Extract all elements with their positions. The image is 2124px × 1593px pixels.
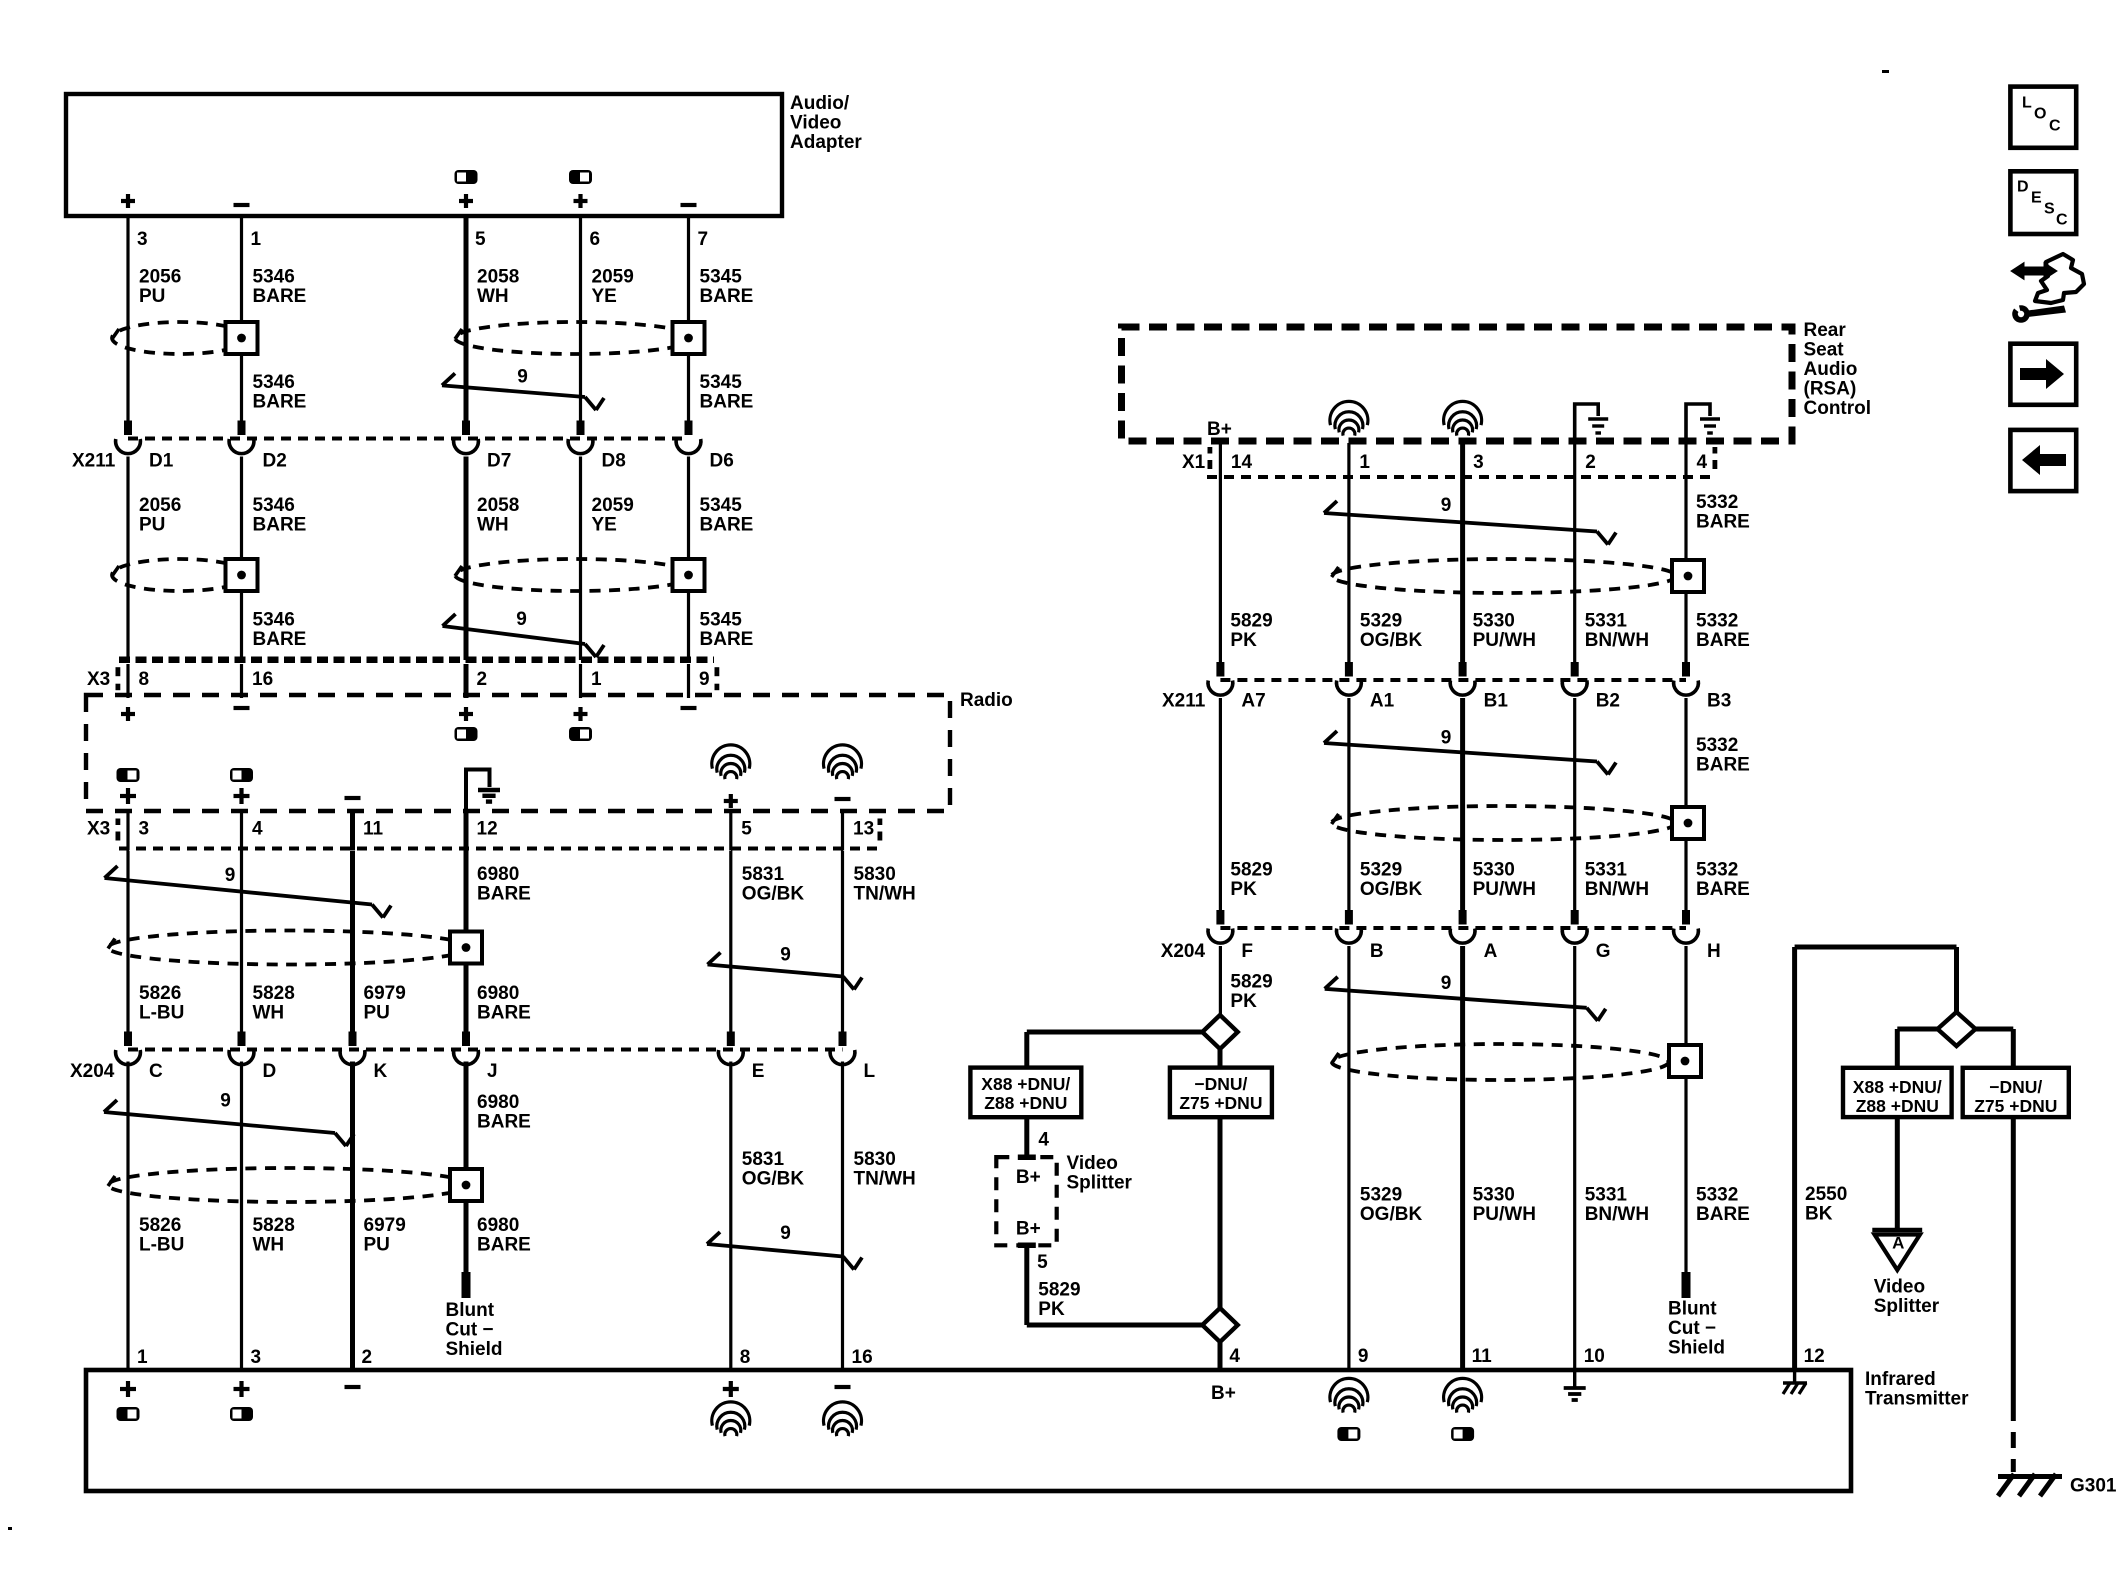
svg-text:BARE: BARE bbox=[477, 1111, 531, 1132]
svg-text:X211: X211 bbox=[1162, 691, 1206, 712]
svg-text:2059: 2059 bbox=[592, 495, 634, 516]
svg-text:Video: Video bbox=[1067, 1153, 1118, 1174]
svg-text:E: E bbox=[752, 1061, 765, 1082]
svg-text:9: 9 bbox=[699, 669, 710, 690]
svg-text:B+: B+ bbox=[1016, 1219, 1041, 1240]
svg-text:5330: 5330 bbox=[1473, 611, 1515, 632]
svg-text:3: 3 bbox=[139, 818, 150, 839]
svg-text:9: 9 bbox=[517, 366, 528, 387]
svg-text:B: B bbox=[1370, 941, 1384, 962]
svg-text:5346: 5346 bbox=[253, 610, 295, 631]
svg-text:8: 8 bbox=[740, 1347, 751, 1368]
svg-text:5331: 5331 bbox=[1585, 859, 1628, 880]
svg-text:9: 9 bbox=[1441, 495, 1452, 516]
svg-text:1: 1 bbox=[137, 1347, 148, 1368]
svg-text:BARE: BARE bbox=[700, 514, 754, 535]
svg-text:−DNU/: −DNU/ bbox=[1194, 1074, 1247, 1094]
svg-text:BN/WH: BN/WH bbox=[1585, 1204, 1649, 1225]
svg-text:14: 14 bbox=[1231, 452, 1253, 473]
svg-text:L-BU: L-BU bbox=[139, 1234, 184, 1255]
svg-text:2056: 2056 bbox=[139, 266, 181, 287]
svg-text:BN/WH: BN/WH bbox=[1585, 630, 1649, 651]
svg-text:5345: 5345 bbox=[700, 372, 743, 393]
svg-text:5345: 5345 bbox=[700, 266, 743, 287]
svg-text:Rear: Rear bbox=[1804, 320, 1847, 341]
svg-text:5346: 5346 bbox=[253, 372, 295, 393]
svg-text:PU: PU bbox=[139, 514, 165, 535]
svg-text:3: 3 bbox=[137, 229, 148, 250]
svg-text:Z88 +DNU: Z88 +DNU bbox=[1856, 1096, 1939, 1116]
svg-text:9: 9 bbox=[780, 944, 791, 965]
svg-text:2056: 2056 bbox=[139, 495, 181, 516]
svg-text:A7: A7 bbox=[1241, 691, 1265, 712]
svg-text:BARE: BARE bbox=[1696, 630, 1750, 651]
svg-text:OG/BK: OG/BK bbox=[1360, 630, 1423, 651]
svg-text:−DNU/: −DNU/ bbox=[1989, 1077, 2042, 1097]
svg-text:PK: PK bbox=[1038, 1299, 1065, 1320]
svg-text:9: 9 bbox=[1358, 1346, 1369, 1367]
svg-text:5: 5 bbox=[1037, 1252, 1048, 1273]
svg-text:6980: 6980 bbox=[477, 1092, 519, 1113]
svg-text:BK: BK bbox=[1805, 1203, 1833, 1224]
svg-text:1: 1 bbox=[251, 229, 262, 250]
svg-text:PU: PU bbox=[364, 1234, 390, 1255]
svg-text:(RSA): (RSA) bbox=[1804, 378, 1857, 399]
svg-text:9: 9 bbox=[225, 865, 236, 886]
svg-text:5: 5 bbox=[475, 229, 486, 250]
svg-text:OG/BK: OG/BK bbox=[1360, 1204, 1423, 1225]
svg-text:Z75 +DNU: Z75 +DNU bbox=[1974, 1096, 2057, 1116]
svg-text:H: H bbox=[1707, 941, 1721, 962]
svg-text:Splitter: Splitter bbox=[1874, 1296, 1940, 1317]
svg-text:5332: 5332 bbox=[1696, 492, 1738, 513]
svg-text:4: 4 bbox=[1038, 1129, 1049, 1150]
svg-text:PU: PU bbox=[139, 286, 165, 307]
svg-text:13: 13 bbox=[853, 818, 874, 839]
svg-text:YE: YE bbox=[592, 286, 617, 307]
svg-text:2059: 2059 bbox=[592, 266, 634, 287]
svg-text:BARE: BARE bbox=[1696, 754, 1750, 775]
svg-text:5332: 5332 bbox=[1696, 735, 1738, 756]
svg-text:Cut −: Cut − bbox=[1668, 1318, 1716, 1339]
svg-text:Control: Control bbox=[1804, 398, 1872, 419]
svg-text:X88 +DNU/: X88 +DNU/ bbox=[981, 1074, 1070, 1094]
svg-text:5330: 5330 bbox=[1473, 1184, 1515, 1205]
svg-text:2: 2 bbox=[1585, 452, 1596, 473]
svg-text:BARE: BARE bbox=[253, 514, 307, 535]
svg-text:B+: B+ bbox=[1016, 1167, 1041, 1188]
svg-text:5346: 5346 bbox=[253, 495, 295, 516]
svg-text:TN/WH: TN/WH bbox=[854, 883, 916, 904]
svg-text:B+: B+ bbox=[1211, 1383, 1236, 1404]
svg-text:D2: D2 bbox=[263, 450, 287, 471]
svg-text:Z75 +DNU: Z75 +DNU bbox=[1179, 1093, 1262, 1113]
svg-text:PU/WH: PU/WH bbox=[1473, 630, 1536, 651]
svg-text:Video: Video bbox=[790, 112, 841, 133]
svg-text:BARE: BARE bbox=[700, 286, 754, 307]
svg-text:6980: 6980 bbox=[477, 983, 519, 1004]
svg-text:BARE: BARE bbox=[700, 391, 754, 412]
svg-text:L: L bbox=[2022, 95, 2032, 112]
svg-text:PK: PK bbox=[1230, 991, 1257, 1012]
svg-text:D8: D8 bbox=[602, 450, 626, 471]
svg-text:B+: B+ bbox=[1207, 419, 1232, 440]
svg-text:D: D bbox=[263, 1061, 277, 1082]
svg-text:9: 9 bbox=[516, 609, 527, 630]
svg-text:5829: 5829 bbox=[1230, 971, 1272, 992]
svg-text:4: 4 bbox=[252, 818, 263, 839]
svg-text:C: C bbox=[149, 1061, 163, 1082]
svg-text:9: 9 bbox=[220, 1091, 231, 1112]
svg-text:3: 3 bbox=[1473, 452, 1484, 473]
svg-text:G: G bbox=[1596, 941, 1611, 962]
svg-text:X1: X1 bbox=[1182, 452, 1206, 473]
svg-text:WH: WH bbox=[253, 1002, 285, 1023]
svg-text:12: 12 bbox=[1804, 1346, 1825, 1367]
svg-text:D7: D7 bbox=[487, 450, 511, 471]
svg-text:J: J bbox=[487, 1061, 498, 1082]
svg-text:Radio: Radio bbox=[960, 690, 1013, 711]
svg-text:Shield: Shield bbox=[1668, 1337, 1725, 1358]
svg-text:Seat: Seat bbox=[1804, 339, 1845, 360]
svg-text:16: 16 bbox=[252, 669, 273, 690]
svg-text:4: 4 bbox=[1229, 1346, 1240, 1367]
svg-text:10: 10 bbox=[1584, 1346, 1605, 1367]
svg-text:16: 16 bbox=[852, 1347, 873, 1368]
svg-text:PU/WH: PU/WH bbox=[1473, 1204, 1536, 1225]
svg-text:Audio/: Audio/ bbox=[790, 93, 850, 114]
svg-text:PK: PK bbox=[1230, 630, 1257, 651]
svg-text:OG/BK: OG/BK bbox=[1360, 879, 1423, 900]
svg-text:5332: 5332 bbox=[1696, 1184, 1738, 1205]
svg-text:Adapter: Adapter bbox=[790, 132, 862, 153]
svg-text:BARE: BARE bbox=[700, 629, 754, 650]
svg-text:5826: 5826 bbox=[139, 1215, 181, 1236]
svg-text:D6: D6 bbox=[710, 450, 734, 471]
svg-text:9: 9 bbox=[1441, 973, 1452, 994]
svg-text:5332: 5332 bbox=[1696, 611, 1738, 632]
svg-text:C: C bbox=[2049, 118, 2061, 135]
svg-text:WH: WH bbox=[253, 1234, 285, 1255]
svg-text:L: L bbox=[864, 1061, 876, 1082]
svg-text:1: 1 bbox=[1359, 452, 1370, 473]
svg-text:11: 11 bbox=[363, 818, 384, 839]
svg-text:1: 1 bbox=[591, 669, 602, 690]
svg-text:BARE: BARE bbox=[253, 391, 307, 412]
svg-text:D: D bbox=[2017, 179, 2029, 196]
svg-text:Infrared: Infrared bbox=[1865, 1369, 1936, 1390]
svg-text:5330: 5330 bbox=[1473, 859, 1515, 880]
svg-text:C: C bbox=[2056, 212, 2068, 229]
svg-text:K: K bbox=[374, 1061, 388, 1082]
svg-text:6980: 6980 bbox=[477, 864, 519, 885]
svg-text:7: 7 bbox=[698, 229, 709, 250]
svg-text:E: E bbox=[2031, 190, 2042, 207]
svg-text:BARE: BARE bbox=[477, 1002, 531, 1023]
svg-text:B2: B2 bbox=[1596, 691, 1620, 712]
svg-text:BARE: BARE bbox=[477, 1234, 531, 1255]
svg-text:9: 9 bbox=[780, 1223, 791, 1244]
svg-text:5828: 5828 bbox=[253, 983, 295, 1004]
svg-text:BARE: BARE bbox=[253, 286, 307, 307]
svg-text:BARE: BARE bbox=[1696, 879, 1750, 900]
svg-text:5830: 5830 bbox=[854, 864, 896, 885]
svg-text:YE: YE bbox=[592, 514, 617, 535]
svg-text:Z88 +DNU: Z88 +DNU bbox=[984, 1093, 1067, 1113]
svg-text:5829: 5829 bbox=[1230, 859, 1272, 880]
svg-text:BN/WH: BN/WH bbox=[1585, 879, 1649, 900]
svg-text:OG/BK: OG/BK bbox=[742, 883, 805, 904]
svg-text:2550: 2550 bbox=[1805, 1184, 1847, 1205]
svg-text:4: 4 bbox=[1697, 452, 1708, 473]
svg-text:5831: 5831 bbox=[742, 1149, 785, 1170]
svg-text:5331: 5331 bbox=[1585, 1184, 1628, 1205]
svg-text:X204: X204 bbox=[70, 1061, 115, 1082]
svg-text:WH: WH bbox=[477, 286, 509, 307]
svg-text:PU/WH: PU/WH bbox=[1473, 879, 1536, 900]
svg-text:PK: PK bbox=[1230, 879, 1257, 900]
svg-text:3: 3 bbox=[251, 1347, 262, 1368]
svg-text:X204: X204 bbox=[1161, 941, 1206, 962]
svg-text:BARE: BARE bbox=[1696, 511, 1750, 532]
svg-text:Blunt: Blunt bbox=[1668, 1298, 1717, 1319]
svg-text:G301: G301 bbox=[2070, 1476, 2117, 1497]
svg-text:Video: Video bbox=[1874, 1276, 1925, 1297]
svg-text:8: 8 bbox=[139, 669, 150, 690]
svg-text:A: A bbox=[1892, 1233, 1904, 1252]
svg-text:2058: 2058 bbox=[477, 495, 519, 516]
svg-text:A1: A1 bbox=[1370, 691, 1395, 712]
svg-text:5829: 5829 bbox=[1038, 1279, 1080, 1300]
svg-text:OG/BK: OG/BK bbox=[742, 1168, 805, 1189]
svg-text:L-BU: L-BU bbox=[139, 1002, 184, 1023]
svg-text:BARE: BARE bbox=[477, 883, 531, 904]
svg-text:B3: B3 bbox=[1707, 691, 1731, 712]
svg-text:2: 2 bbox=[477, 669, 488, 690]
svg-text:F: F bbox=[1241, 941, 1253, 962]
svg-text:X88 +DNU/: X88 +DNU/ bbox=[1853, 1077, 1942, 1097]
svg-text:5332: 5332 bbox=[1696, 859, 1738, 880]
svg-text:WH: WH bbox=[477, 514, 509, 535]
svg-text:Blunt: Blunt bbox=[446, 1300, 495, 1321]
svg-text:6979: 6979 bbox=[364, 1215, 406, 1236]
svg-text:5831: 5831 bbox=[742, 864, 785, 885]
svg-text:PU: PU bbox=[364, 1002, 390, 1023]
svg-text:5345: 5345 bbox=[700, 610, 743, 631]
svg-text:6980: 6980 bbox=[477, 1215, 519, 1236]
svg-text:Splitter: Splitter bbox=[1067, 1173, 1133, 1194]
svg-text:O: O bbox=[2034, 106, 2046, 123]
svg-text:X3: X3 bbox=[87, 818, 110, 839]
svg-text:5: 5 bbox=[741, 818, 752, 839]
svg-text:5829: 5829 bbox=[1230, 611, 1272, 632]
svg-text:2058: 2058 bbox=[477, 266, 519, 287]
svg-text:5329: 5329 bbox=[1360, 859, 1402, 880]
svg-text:2: 2 bbox=[362, 1347, 373, 1368]
svg-text:Cut −: Cut − bbox=[446, 1319, 494, 1340]
svg-text:X211: X211 bbox=[72, 450, 116, 471]
svg-text:BARE: BARE bbox=[253, 629, 307, 650]
svg-text:Shield: Shield bbox=[446, 1339, 503, 1360]
svg-text:9: 9 bbox=[1441, 728, 1452, 749]
svg-text:X3: X3 bbox=[87, 669, 110, 690]
svg-text:TN/WH: TN/WH bbox=[854, 1168, 916, 1189]
svg-text:B1: B1 bbox=[1484, 691, 1509, 712]
svg-text:5345: 5345 bbox=[700, 495, 743, 516]
svg-text:D1: D1 bbox=[149, 450, 174, 471]
svg-text:BARE: BARE bbox=[1696, 1204, 1750, 1225]
svg-text:5329: 5329 bbox=[1360, 611, 1402, 632]
svg-text:5830: 5830 bbox=[854, 1149, 896, 1170]
svg-text:5331: 5331 bbox=[1585, 611, 1628, 632]
svg-text:6979: 6979 bbox=[364, 983, 406, 1004]
svg-text:A: A bbox=[1484, 941, 1498, 962]
svg-text:5346: 5346 bbox=[253, 266, 295, 287]
svg-text:5828: 5828 bbox=[253, 1215, 295, 1236]
svg-text:5826: 5826 bbox=[139, 983, 181, 1004]
svg-text:Audio: Audio bbox=[1804, 359, 1858, 380]
svg-text:5329: 5329 bbox=[1360, 1184, 1402, 1205]
svg-text:11: 11 bbox=[1472, 1346, 1493, 1367]
svg-text:6: 6 bbox=[590, 229, 601, 250]
svg-text:Transmitter: Transmitter bbox=[1865, 1388, 1969, 1409]
svg-text:S: S bbox=[2044, 201, 2055, 218]
svg-text:12: 12 bbox=[477, 818, 498, 839]
